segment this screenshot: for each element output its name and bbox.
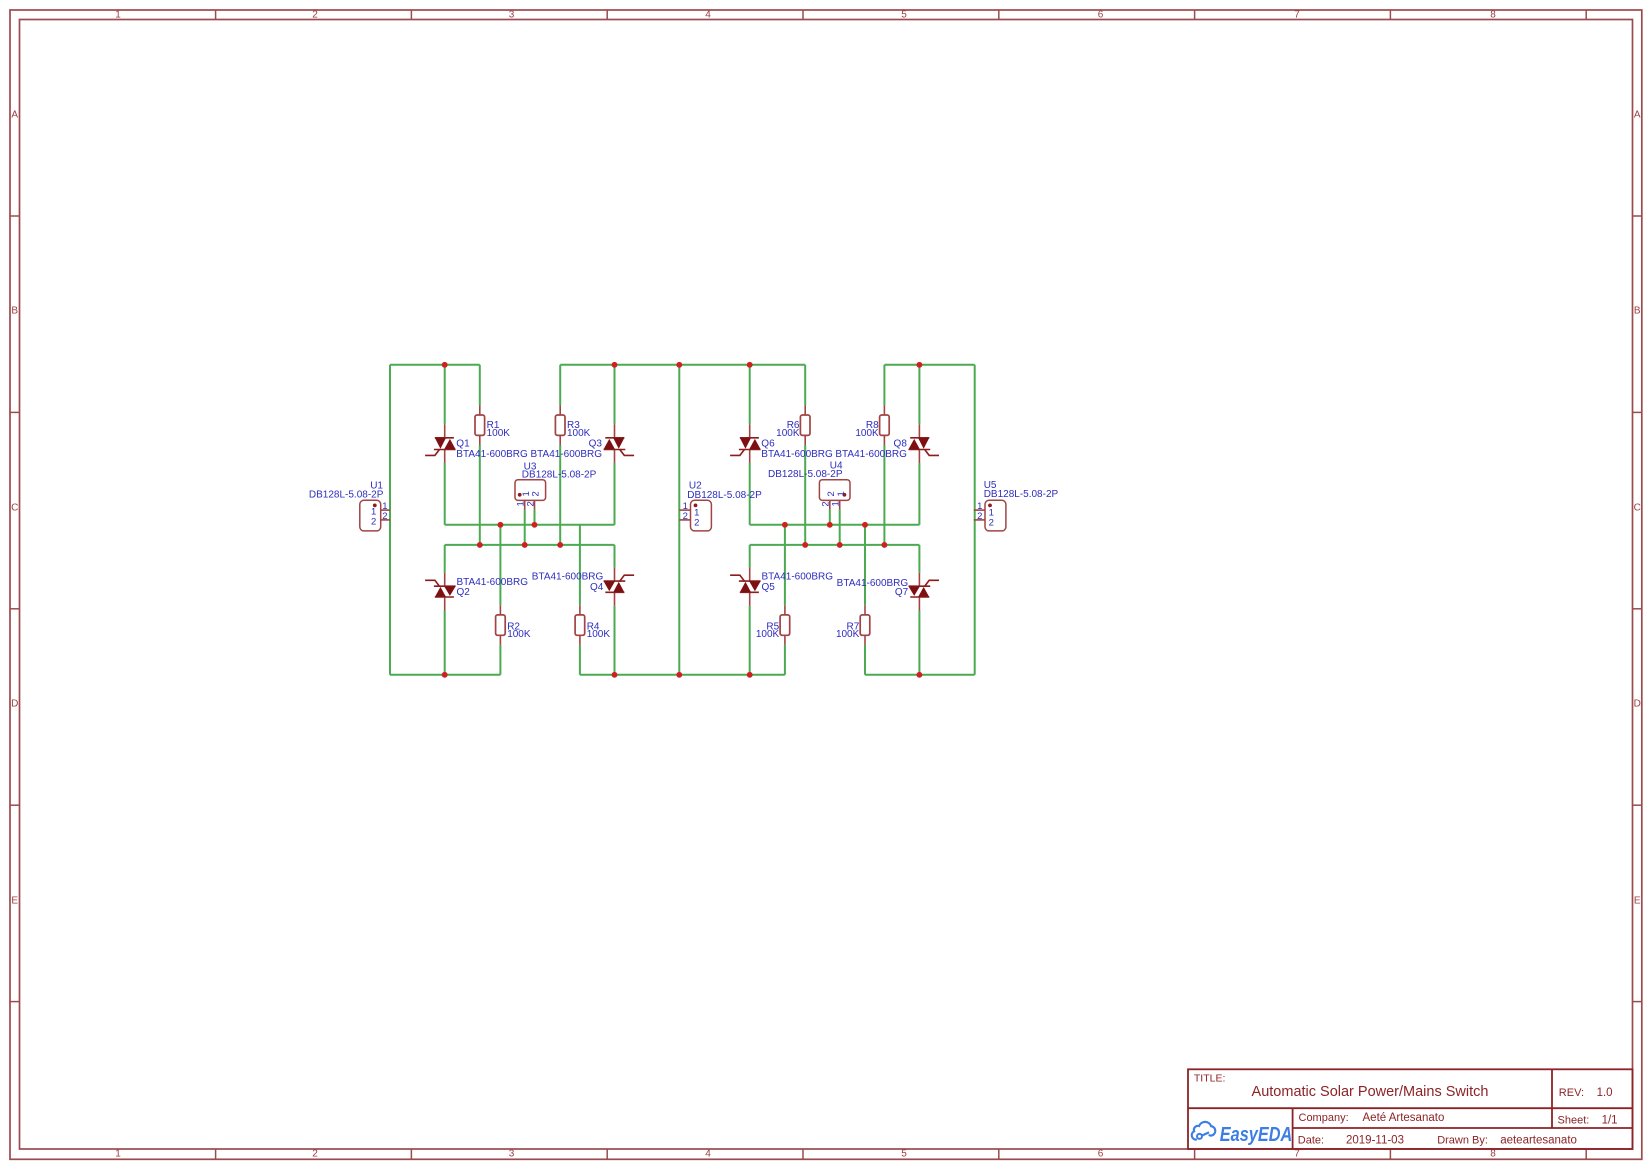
- wire U3 pin1 to bus2: [524, 510, 526, 545]
- wire mid bus 1 right: [750, 524, 920, 526]
- triac Q1 (BTA41-600BRG): [425, 424, 456, 463]
- svg-text:2: 2: [977, 511, 982, 522]
- junction (444.7,364.8): [442, 362, 448, 368]
- wire U4 pin1 to bus2: [839, 510, 841, 545]
- junction (560.2,544.9): [557, 542, 563, 548]
- svg-text:BTA41-600BRG: BTA41-600BRG: [530, 449, 602, 460]
- svg-text:1: 1: [831, 501, 842, 506]
- wire R3 top lead: [559, 365, 561, 406]
- wire R2 bottom lead: [499, 645, 501, 675]
- svg-text:2: 2: [531, 491, 542, 496]
- wire Q3 top lead: [614, 365, 616, 425]
- svg-text:8: 8: [1490, 1149, 1496, 1160]
- wire Q6 top lead: [749, 365, 751, 425]
- svg-text:100K: 100K: [776, 428, 800, 439]
- svg-text:1: 1: [115, 1149, 121, 1160]
- wire R3 bottom lead: [559, 445, 561, 545]
- svg-text:100K: 100K: [487, 428, 511, 439]
- svg-text:B: B: [1634, 306, 1641, 317]
- svg-text:1.0: 1.0: [1597, 1087, 1613, 1099]
- connector U1 (DB128L-5.08-2P): [360, 500, 381, 531]
- wire Q7 bottom lead: [918, 611, 920, 675]
- svg-text:C: C: [1634, 503, 1641, 514]
- svg-text:2019-11-03: 2019-11-03: [1346, 1134, 1404, 1146]
- wire top rail middle (R3 to R6): [560, 364, 805, 366]
- wire Q5 top lead: [749, 545, 751, 568]
- junction (749.7,674.8): [747, 672, 753, 678]
- svg-text:REV:: REV:: [1559, 1087, 1584, 1099]
- svg-text:2: 2: [683, 511, 688, 522]
- triac Q4 (BTA41-600BRG): [604, 568, 635, 606]
- resistor R1 (100K): [479, 405, 481, 415]
- svg-text:Q4: Q4: [590, 582, 604, 593]
- svg-text:DB128L-5.08-2P: DB128L-5.08-2P: [309, 490, 384, 501]
- svg-text:100K: 100K: [756, 629, 780, 640]
- svg-text:DB128L-5.08-2P: DB128L-5.08-2P: [984, 489, 1059, 500]
- wire Q8 top lead: [918, 365, 920, 425]
- connector U3 (DB128L-5.08-2P): [515, 480, 546, 501]
- svg-text:100K: 100K: [567, 428, 591, 439]
- svg-text:7: 7: [1294, 10, 1300, 21]
- junction (805.2,544.9): [802, 542, 808, 548]
- wire R4 bottom lead: [579, 645, 581, 675]
- svg-text:BTA41-600BRG: BTA41-600BRG: [835, 449, 907, 460]
- svg-text:Q2: Q2: [457, 587, 471, 598]
- wire R7 bottom lead: [864, 645, 866, 675]
- svg-text:aeteartesanato: aeteartesanato: [1500, 1134, 1577, 1146]
- svg-text:8: 8: [1490, 10, 1496, 21]
- svg-text:BTA41-600BRG: BTA41-600BRG: [837, 578, 909, 589]
- resistor R8 (100K): [883, 405, 885, 415]
- svg-text:2: 2: [312, 10, 318, 21]
- svg-text:BTA41-600BRG: BTA41-600BRG: [762, 571, 834, 582]
- wire R6 bottom lead: [804, 445, 806, 545]
- svg-text:D: D: [1634, 699, 1641, 710]
- triac Q8 (BTA41-600BRG): [909, 424, 940, 463]
- triac Q7 (BTA41-600BRG): [909, 573, 940, 611]
- triac Q5 (BTA41-600BRG): [730, 568, 761, 606]
- svg-text:2: 2: [989, 517, 994, 528]
- connector U5 (DB128L-5.08-2P): [985, 500, 1006, 531]
- svg-text:2: 2: [694, 517, 699, 528]
- wire Q6 bottom lead: [749, 463, 751, 525]
- junction (444.7,674.8): [442, 672, 448, 678]
- svg-text:Company:: Company:: [1299, 1112, 1349, 1124]
- svg-text:Q1: Q1: [456, 438, 470, 449]
- svg-text:2: 2: [382, 511, 387, 522]
- svg-text:3: 3: [509, 1149, 515, 1160]
- svg-text:E: E: [11, 896, 18, 907]
- wire mid bus 2 right: [750, 544, 920, 546]
- wire top rail right (R8 to U5): [884, 364, 974, 366]
- svg-text:A: A: [1634, 110, 1641, 121]
- svg-text:Q5: Q5: [762, 582, 776, 593]
- svg-text:BTA41-600BRG: BTA41-600BRG: [457, 577, 529, 588]
- svg-text:6: 6: [1098, 10, 1104, 21]
- wire R6 top lead: [804, 365, 806, 406]
- svg-text:C: C: [11, 503, 18, 514]
- wire mid bus 2 left: [445, 544, 615, 546]
- junction (614.5,674.8): [612, 672, 618, 678]
- junction (919.4,674.8): [916, 672, 922, 678]
- EasyEDA logo text: [1220, 1122, 1292, 1145]
- resistor R2 (100K): [499, 605, 501, 615]
- svg-text:100K: 100K: [855, 428, 879, 439]
- wire U3 pin2 to bus1: [534, 510, 536, 525]
- wire Q2 top lead: [444, 545, 446, 573]
- wire R5 top lead: [784, 525, 786, 606]
- wire Q4 top lead: [614, 545, 616, 568]
- wire Q2 bottom lead: [444, 611, 446, 675]
- svg-text:DB128L-5.08-2P: DB128L-5.08-2P: [687, 490, 762, 501]
- junction (919.4,364.8): [916, 362, 922, 368]
- wire top rail left (U1 to R1): [390, 364, 480, 366]
- wire Q1 bottom lead: [444, 463, 446, 525]
- svg-text:1: 1: [115, 10, 121, 21]
- svg-text:BTA41-600BRG: BTA41-600BRG: [456, 449, 528, 460]
- connector U4 (DB128L-5.08-2P): [819, 480, 850, 501]
- svg-text:Sheet:: Sheet:: [1558, 1115, 1590, 1127]
- wire U1 vertical: [389, 365, 391, 675]
- junction (614.5,364.8): [612, 362, 618, 368]
- svg-text:5: 5: [901, 10, 907, 21]
- wire R7 top lead: [864, 525, 866, 606]
- svg-text:Drawn By:: Drawn By:: [1437, 1134, 1488, 1146]
- svg-text:1: 1: [836, 491, 847, 496]
- svg-text:E: E: [1634, 896, 1641, 907]
- wire bottom rail left (U1 to R2): [390, 674, 500, 676]
- svg-text:7: 7: [1294, 1149, 1300, 1160]
- junction (829.8,524.8): [827, 522, 833, 528]
- label U4 pin numbers: [826, 491, 837, 496]
- wire Q4 bottom lead: [614, 606, 616, 675]
- junction (749.7,364.8): [747, 362, 753, 368]
- wire Q1 top lead: [444, 365, 446, 425]
- junction (479.8,544.9): [477, 542, 483, 548]
- wire bottom rail middle (R4 to R5): [580, 674, 785, 676]
- svg-text:Automatic Solar Power/Mains Sw: Automatic Solar Power/Mains Switch: [1252, 1084, 1489, 1100]
- svg-text:5: 5: [901, 1149, 907, 1160]
- svg-text:Date:: Date:: [1298, 1134, 1324, 1146]
- wire Q5 bottom lead: [749, 606, 751, 675]
- svg-text:TITLE:: TITLE:: [1194, 1073, 1226, 1085]
- svg-text:Q8: Q8: [894, 438, 908, 449]
- svg-text:A: A: [11, 110, 18, 121]
- title block frame: [1188, 1069, 1633, 1149]
- svg-text:100K: 100K: [507, 629, 531, 640]
- resistor R4 (100K): [579, 605, 581, 615]
- resistor R5 (100K): [784, 605, 786, 615]
- EasyEDA logo cloud: [1192, 1122, 1216, 1140]
- svg-text:100K: 100K: [587, 629, 611, 640]
- svg-text:BTA41-600BRG: BTA41-600BRG: [532, 571, 604, 582]
- wire R5 bottom lead: [784, 645, 786, 675]
- svg-text:2: 2: [312, 1149, 318, 1160]
- svg-text:Aeté Artesanato: Aeté Artesanato: [1363, 1112, 1445, 1124]
- wire Q7 top lead: [918, 545, 920, 573]
- wire U2 vertical: [678, 365, 680, 675]
- svg-text:2: 2: [371, 517, 376, 528]
- svg-text:DB128L-5.08-2P: DB128L-5.08-2P: [522, 469, 597, 480]
- label U3 pin numbers: [521, 491, 532, 496]
- junction (524.7,544.9): [522, 542, 528, 548]
- svg-text:Q6: Q6: [761, 438, 775, 449]
- wire U4 pin2 to bus1: [829, 510, 831, 525]
- svg-text:100K: 100K: [836, 629, 860, 640]
- svg-text:1/1: 1/1: [1602, 1115, 1618, 1127]
- svg-text:Q3: Q3: [589, 438, 603, 449]
- resistor R6 (100K): [804, 405, 806, 415]
- svg-text:DB128L-5.08-2P: DB128L-5.08-2P: [768, 469, 843, 480]
- svg-text:D: D: [11, 699, 18, 710]
- triac Q6 (BTA41-600BRG): [730, 424, 761, 463]
- triac Q2 (BTA41-600BRG): [425, 573, 456, 611]
- wire R2 top lead: [499, 525, 501, 606]
- wire R1 top lead: [479, 365, 481, 406]
- wire R4 top lead: [579, 525, 581, 606]
- junction (679.3,364.8): [676, 362, 682, 368]
- connector U2 (DB128L-5.08-2P): [691, 500, 712, 531]
- junction (884.4,544.9): [881, 542, 887, 548]
- wire mid bus 1 left: [445, 524, 615, 526]
- svg-text:BTA41-600BRG: BTA41-600BRG: [761, 449, 833, 460]
- junction (839.7,544.9): [837, 542, 843, 548]
- wire Q3 bottom lead: [614, 463, 616, 525]
- svg-text:B: B: [11, 306, 18, 317]
- frame ruler ticks: [215, 10, 217, 20]
- junction (784.9,524.8): [782, 522, 788, 528]
- junction (679.3,674.8): [676, 672, 682, 678]
- svg-text:2: 2: [525, 501, 536, 506]
- junction (500.4,524.8): [497, 522, 503, 528]
- junction (534.5,524.8): [532, 522, 538, 528]
- resistor R3 (100K): [559, 405, 561, 415]
- svg-text:EasyEDA: EasyEDA: [1220, 1122, 1292, 1145]
- wire R8 bottom lead: [883, 445, 885, 545]
- junction (865.0,524.8): [862, 522, 868, 528]
- wire bottom rail right (R7 to U5): [865, 674, 975, 676]
- svg-text:4: 4: [705, 1149, 711, 1160]
- svg-text:3: 3: [509, 10, 515, 21]
- triac Q3 (BTA41-600BRG): [604, 424, 635, 463]
- resistor R7 (100K): [864, 605, 866, 615]
- wire U5 vertical: [974, 365, 976, 675]
- wire R1 bottom lead: [479, 445, 481, 545]
- wire Q8 bottom lead: [918, 463, 920, 525]
- wire R8 top lead: [883, 365, 885, 406]
- svg-text:6: 6: [1098, 1149, 1104, 1160]
- svg-text:4: 4: [705, 10, 711, 21]
